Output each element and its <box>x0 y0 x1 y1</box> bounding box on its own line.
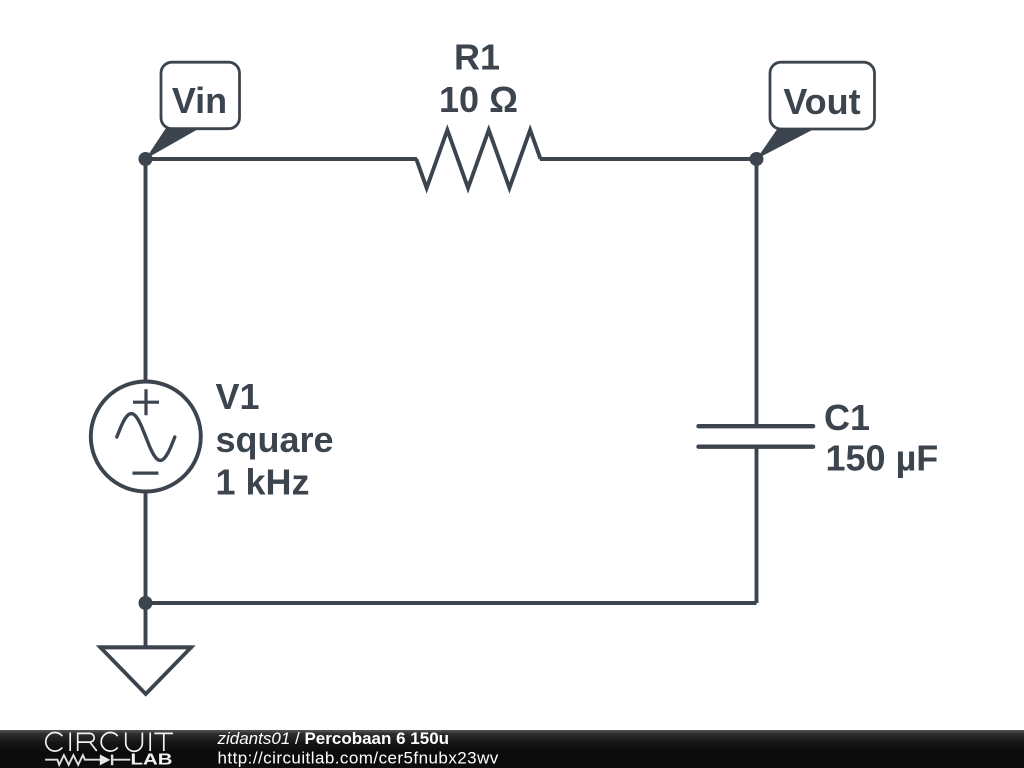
footer bar <box>0 730 1024 768</box>
V1 minus terminal mark <box>133 472 159 475</box>
svg-text:zidants01 / Percobaan 6 150u: zidants01 / Percobaan 6 150u <box>217 729 450 748</box>
wire: Vin node down to V1 positive terminal <box>144 159 148 383</box>
wire: R1 right lead to Vout node <box>540 157 757 161</box>
voltage source V1 (square wave) <box>91 382 201 492</box>
svg-text:LAB: LAB <box>131 751 173 768</box>
wire: Vout node to C1 top plate <box>755 159 759 426</box>
svg-text:150 µF: 150 µF <box>826 438 939 479</box>
node Vout callout flag <box>757 62 875 159</box>
capacitor C1 <box>699 426 814 447</box>
V1 plus terminal mark <box>133 389 159 415</box>
wire: V1 negative terminal to ground node <box>144 492 148 604</box>
resistor R1 <box>416 130 540 188</box>
node Vin callout flag <box>146 62 240 159</box>
label C1 reference and value <box>824 397 938 479</box>
node Vin junction dot <box>139 152 153 166</box>
svg-text:1 kHz: 1 kHz <box>216 462 310 503</box>
node Vout junction dot <box>750 152 764 166</box>
svg-text:Vin: Vin <box>172 80 227 121</box>
CircuitLab logo diode triangle <box>100 754 111 765</box>
wire: Vin node to R1 left lead <box>146 157 418 161</box>
svg-text:10 Ω: 10 Ω <box>439 79 518 120</box>
wire: ground node to ground symbol <box>144 603 148 648</box>
svg-text:C1: C1 <box>824 397 870 438</box>
label V1 reference and parameters <box>216 376 334 503</box>
svg-text:R1: R1 <box>454 37 500 78</box>
CircuitLab logo wordmark CIRCUIT (drawn as thin strokes) <box>46 732 173 751</box>
svg-text:http://circuitlab.com/cer5fnub: http://circuitlab.com/cer5fnubx23wv <box>218 749 499 768</box>
svg-text:V1: V1 <box>216 376 260 417</box>
wire: bottom rail from ground node to C1 bottom <box>146 601 757 605</box>
CircuitLab logo resistor-diode glyph <box>45 755 130 766</box>
ground symbol <box>99 647 193 694</box>
svg-text:Vout: Vout <box>783 81 860 122</box>
node ground junction dot <box>139 596 153 610</box>
wire: C1 bottom plate to bottom rail <box>755 447 759 603</box>
svg-text:square: square <box>216 419 334 460</box>
